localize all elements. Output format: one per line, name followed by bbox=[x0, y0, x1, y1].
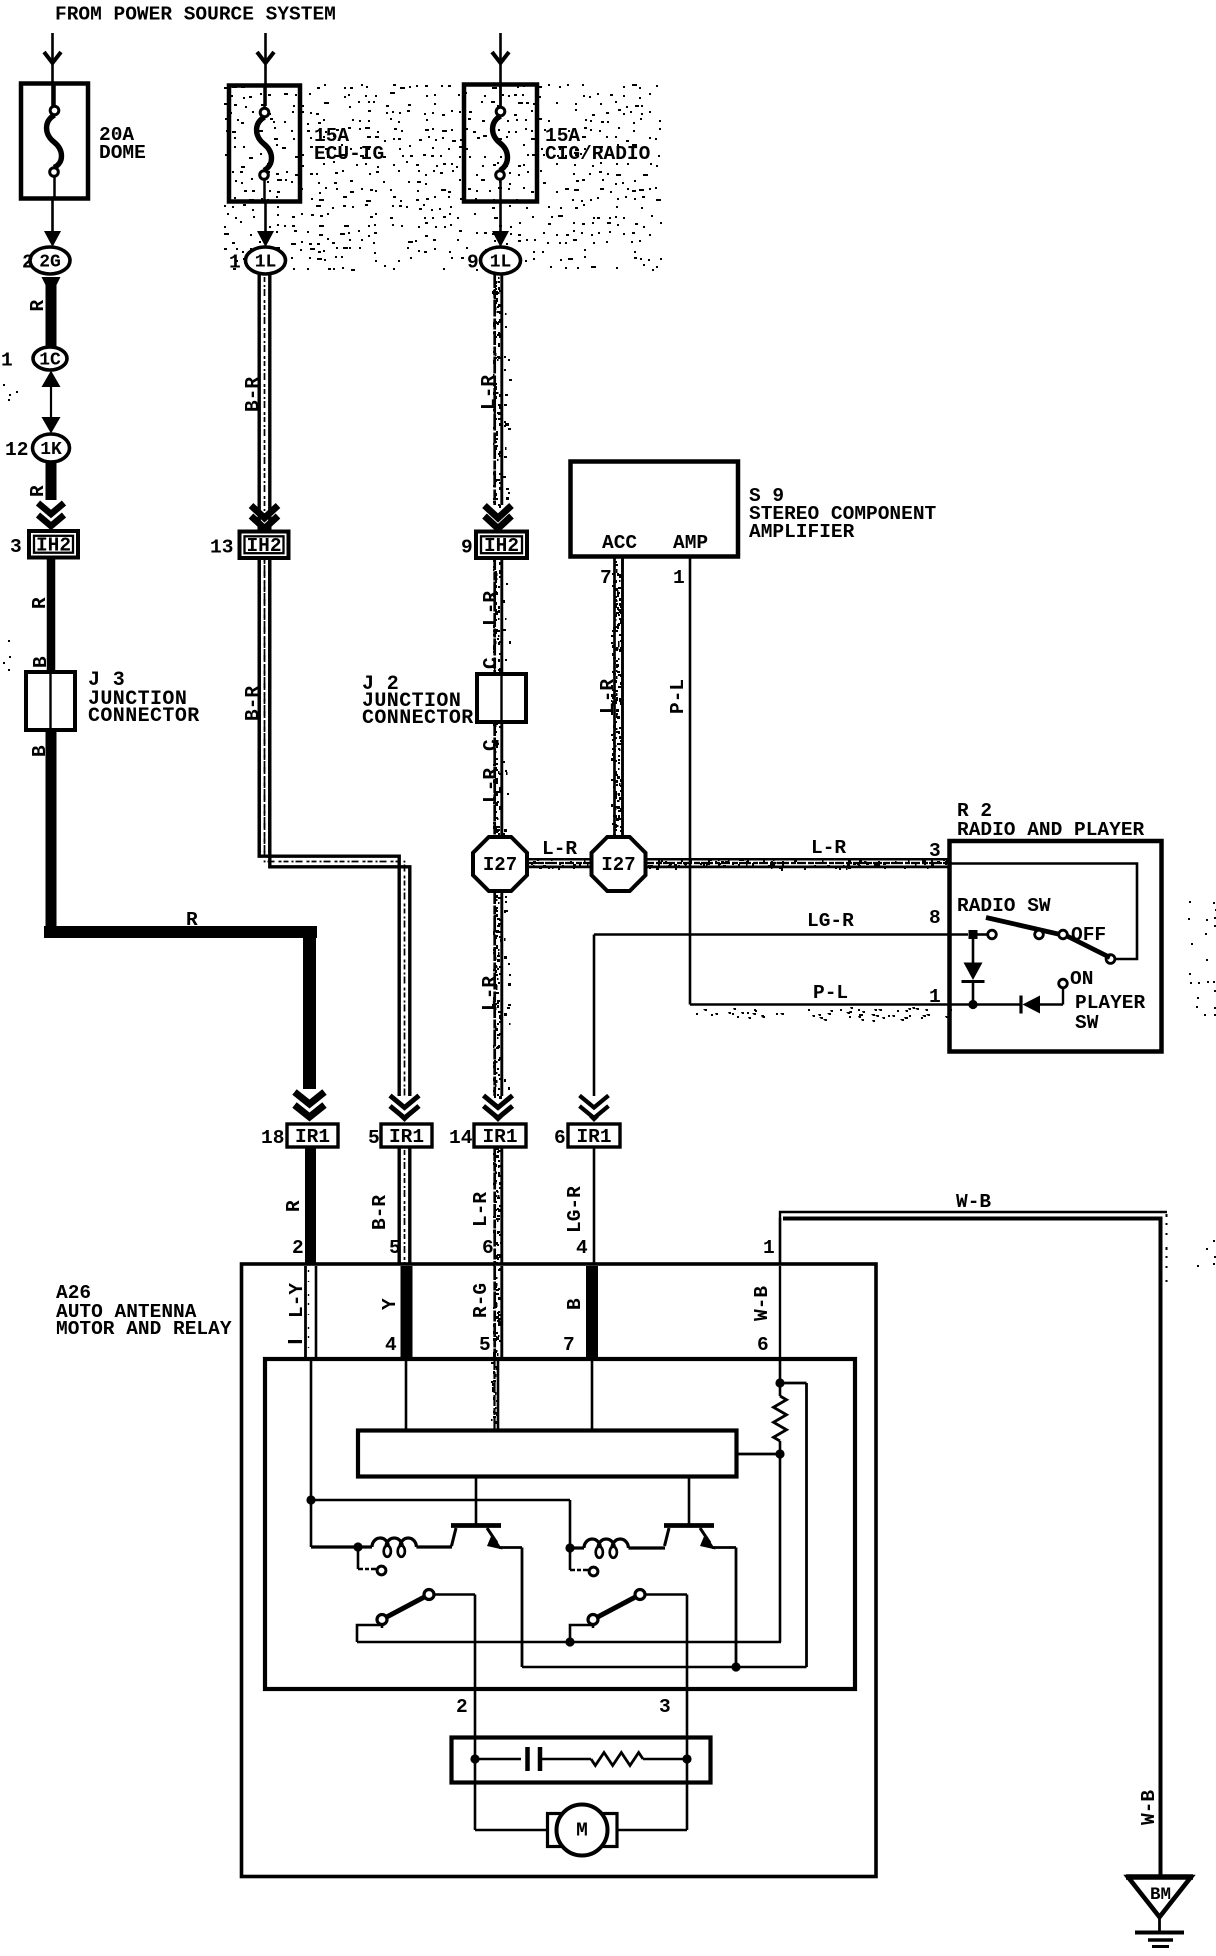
svg-text:1: 1 bbox=[673, 567, 685, 589]
svg-text:6: 6 bbox=[757, 1334, 769, 1356]
svg-text:B-R: B-R bbox=[242, 686, 264, 721]
svg-text:FROM POWER SOURCE SYSTEM: FROM POWER SOURCE SYSTEM bbox=[55, 4, 336, 26]
svg-text:R: R bbox=[27, 300, 49, 312]
svg-text:C: C bbox=[480, 657, 502, 669]
svg-text:5: 5 bbox=[389, 1237, 401, 1259]
svg-text:1: 1 bbox=[1, 350, 13, 372]
svg-text:1: 1 bbox=[229, 252, 241, 274]
svg-text:9: 9 bbox=[467, 252, 479, 274]
svg-text:AMP: AMP bbox=[673, 532, 708, 554]
svg-text:W-B: W-B bbox=[751, 1286, 773, 1321]
svg-text:2: 2 bbox=[456, 1696, 468, 1718]
svg-text:I27: I27 bbox=[601, 854, 635, 876]
svg-text:AMPLIFIER: AMPLIFIER bbox=[749, 521, 855, 543]
svg-text:ACC: ACC bbox=[602, 532, 637, 554]
svg-text:B-R: B-R bbox=[242, 377, 264, 412]
svg-text:6: 6 bbox=[482, 1237, 494, 1259]
svg-text:L-R: L-R bbox=[597, 679, 619, 714]
svg-text:W-B: W-B bbox=[1138, 1790, 1160, 1825]
svg-text:IH2: IH2 bbox=[484, 535, 519, 557]
svg-text:L-R: L-R bbox=[480, 768, 502, 803]
svg-text:5: 5 bbox=[479, 1334, 491, 1356]
svg-text:2: 2 bbox=[292, 1237, 304, 1259]
svg-text:Y: Y bbox=[379, 1298, 401, 1310]
svg-text:B: B bbox=[564, 1298, 586, 1310]
svg-text:18: 18 bbox=[261, 1127, 284, 1149]
svg-text:3: 3 bbox=[929, 840, 941, 862]
svg-text:MOTOR AND RELAY: MOTOR AND RELAY bbox=[56, 1318, 232, 1340]
svg-text:BM: BM bbox=[1150, 1885, 1171, 1905]
svg-text:1L: 1L bbox=[490, 253, 512, 273]
svg-text:13: 13 bbox=[210, 536, 233, 558]
svg-text:B: B bbox=[30, 656, 52, 668]
svg-text:1L: 1L bbox=[255, 253, 277, 273]
svg-text:IH2: IH2 bbox=[36, 534, 71, 556]
svg-text:OFF: OFF bbox=[1071, 924, 1106, 946]
svg-text:L-R: L-R bbox=[478, 375, 500, 410]
svg-text:B: B bbox=[29, 745, 51, 757]
svg-text:RADIO SW: RADIO SW bbox=[957, 895, 1051, 917]
svg-text:M: M bbox=[576, 1820, 588, 1842]
svg-text:I27: I27 bbox=[483, 854, 517, 876]
svg-text:L-R: L-R bbox=[480, 591, 502, 626]
svg-text:R: R bbox=[27, 485, 49, 497]
svg-text:B-R: B-R bbox=[369, 1195, 391, 1230]
svg-text:2: 2 bbox=[22, 252, 34, 274]
svg-text:DOME: DOME bbox=[99, 142, 146, 164]
svg-text:P-L: P-L bbox=[667, 679, 689, 714]
svg-text:IR1: IR1 bbox=[482, 1126, 517, 1148]
svg-text:7: 7 bbox=[563, 1334, 575, 1356]
svg-text:L-R: L-R bbox=[811, 837, 846, 859]
svg-text:CIG/RADIO: CIG/RADIO bbox=[545, 143, 651, 165]
svg-text:4: 4 bbox=[576, 1237, 588, 1259]
svg-text:L-R: L-R bbox=[470, 1192, 492, 1227]
svg-text:3: 3 bbox=[10, 536, 22, 558]
svg-text:RADIO AND PLAYER: RADIO AND PLAYER bbox=[957, 819, 1145, 841]
svg-text:4: 4 bbox=[385, 1334, 397, 1356]
svg-text:R: R bbox=[29, 597, 51, 609]
svg-text:IR1: IR1 bbox=[576, 1126, 611, 1148]
svg-text:1K: 1K bbox=[40, 440, 62, 460]
svg-text:C: C bbox=[480, 739, 502, 751]
svg-text:P-L: P-L bbox=[813, 982, 848, 1004]
svg-text:LG-R: LG-R bbox=[564, 1186, 586, 1233]
svg-text:L-R: L-R bbox=[479, 976, 501, 1011]
svg-text:IH2: IH2 bbox=[246, 535, 281, 557]
svg-text:2G: 2G bbox=[39, 253, 61, 273]
svg-text:PLAYER: PLAYER bbox=[1075, 992, 1146, 1014]
svg-text:3: 3 bbox=[659, 1696, 671, 1718]
svg-text:12: 12 bbox=[5, 439, 28, 461]
svg-text:14: 14 bbox=[449, 1127, 473, 1149]
svg-text:6: 6 bbox=[554, 1127, 566, 1149]
svg-text:W-B: W-B bbox=[956, 1191, 991, 1213]
svg-text:L-R: L-R bbox=[542, 838, 577, 860]
svg-text:9: 9 bbox=[461, 536, 473, 558]
svg-text:1C: 1C bbox=[39, 351, 61, 371]
svg-text:CONNECTOR: CONNECTOR bbox=[88, 705, 200, 728]
svg-text:R: R bbox=[283, 1200, 305, 1212]
svg-text:7: 7 bbox=[600, 567, 612, 589]
svg-text:IR1: IR1 bbox=[389, 1126, 424, 1148]
svg-text:1: 1 bbox=[763, 1237, 775, 1259]
svg-text:IR1: IR1 bbox=[295, 1126, 330, 1148]
svg-text:SW: SW bbox=[1075, 1012, 1099, 1034]
svg-text:L-Y: L-Y bbox=[286, 1283, 308, 1318]
svg-text:R: R bbox=[186, 909, 198, 931]
svg-text:ON: ON bbox=[1070, 968, 1093, 990]
svg-text:R-G: R-G bbox=[470, 1283, 492, 1318]
svg-text:5: 5 bbox=[368, 1127, 380, 1149]
svg-text:LG-R: LG-R bbox=[807, 910, 854, 932]
svg-text:ECU-IG: ECU-IG bbox=[314, 143, 384, 165]
svg-text:8: 8 bbox=[929, 907, 941, 929]
svg-text:CONNECTOR: CONNECTOR bbox=[362, 707, 474, 730]
